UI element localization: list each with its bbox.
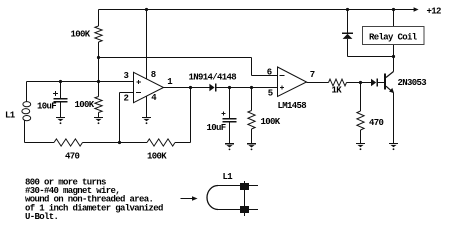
svg-text:2: 2 [124,94,129,104]
svg-text:1K: 1K [332,86,343,96]
svg-text:2N3053: 2N3053 [398,78,427,88]
svg-text:7: 7 [310,70,315,80]
svg-text:1N914/4148: 1N914/4148 [189,73,237,83]
svg-text:L1: L1 [5,111,16,121]
svg-text:100K: 100K [71,30,91,40]
svg-text:100K: 100K [75,100,95,110]
svg-text:Relay Coil: Relay Coil [369,33,418,43]
svg-text:U-Bolt.: U-Bolt. [25,212,58,222]
svg-text:3: 3 [124,71,129,81]
svg-text:LM1458: LM1458 [278,101,307,111]
svg-text:100K: 100K [261,117,281,127]
svg-text:470: 470 [65,152,80,162]
svg-text:5: 5 [268,89,273,99]
svg-text:8: 8 [151,70,156,80]
svg-text:L1: L1 [223,172,234,182]
svg-text:+12: +12 [427,7,442,17]
svg-text:470: 470 [369,118,384,128]
svg-text:100K: 100K [147,152,167,162]
svg-text:6: 6 [267,68,272,78]
svg-text:10uF: 10uF [37,102,56,112]
svg-text:10uF: 10uF [207,123,226,133]
